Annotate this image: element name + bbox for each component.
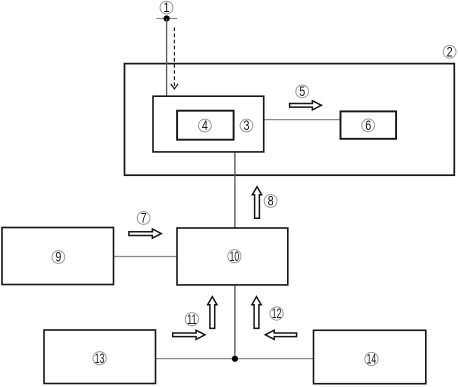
box 4 (inner block) — [177, 111, 234, 140]
svg-text:11: 11 — [187, 312, 197, 327]
svg-text:13: 13 — [95, 351, 105, 366]
wire: vertical feed from node 1 down into box 3 — [166, 19, 168, 96]
junction dot at node 1 — [164, 15, 170, 21]
box 14 — [314, 330, 426, 383]
svg-text:6: 6 — [365, 118, 371, 133]
label 2 — [443, 44, 456, 59]
box 2 (outer unit enclosure) — [125, 64, 455, 176]
wire: antenna tick bar at node 1 — [156, 18, 177, 20]
arrow 7 (block arrow right) — [129, 229, 161, 238]
wire: box 9 to box 10 — [114, 256, 178, 258]
arrow 12 vertical (block arrow up) — [252, 297, 261, 329]
svg-text:9: 9 — [55, 250, 61, 265]
label 9 — [52, 250, 65, 265]
svg-text:7: 7 — [141, 211, 147, 226]
label 5 — [296, 84, 309, 99]
label 1 — [160, 0, 173, 15]
label 7 — [137, 211, 150, 226]
wire: box 10 down to junction — [234, 285, 236, 359]
svg-text:1: 1 — [164, 0, 170, 15]
label 11 — [185, 312, 198, 327]
arrow 11 vertical (block arrow up) — [208, 297, 217, 329]
wire: box 3 down to box 10 — [234, 152, 236, 228]
label 13 — [93, 351, 106, 366]
wire: box 13 to box 14 — [156, 358, 314, 360]
label 3 — [240, 118, 253, 133]
arrow 5 (block arrow right) — [290, 101, 322, 110]
junction dot between box 13 and 14 — [232, 356, 238, 362]
box 3 — [153, 96, 264, 152]
arrow 8 (block arrow up) — [252, 187, 261, 219]
box 6 — [341, 111, 397, 138]
box 9 — [2, 228, 114, 285]
label 10 — [228, 249, 241, 264]
label 8 — [264, 194, 277, 209]
label 6 — [362, 118, 375, 133]
arrow 11 horizontal (block arrow right) — [173, 330, 205, 339]
svg-text:2: 2 — [447, 44, 453, 59]
box 10 — [177, 228, 288, 285]
svg-text:5: 5 — [299, 84, 305, 99]
svg-text:3: 3 — [244, 118, 250, 133]
dashed signal arrow from node 1 into box 3 — [171, 28, 178, 90]
box 13 — [44, 330, 156, 384]
svg-text:10: 10 — [230, 249, 240, 264]
arrow 12 horizontal (block arrow left) — [265, 330, 296, 339]
svg-text:4: 4 — [202, 118, 208, 133]
svg-text:8: 8 — [268, 194, 274, 209]
wire: box 3 to box 6 — [264, 119, 341, 121]
svg-text:12: 12 — [272, 306, 282, 321]
label 12 — [270, 306, 283, 321]
label 4 — [199, 118, 212, 133]
label 14 — [365, 352, 378, 367]
svg-text:14: 14 — [367, 352, 377, 367]
